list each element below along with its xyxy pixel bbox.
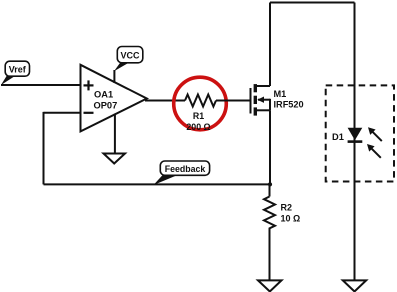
wire VEE pin down — [114, 114, 116, 154]
wire right rail down through D1 — [354, 3, 356, 281]
label callout VCC — [114, 47, 143, 72]
wire op-amp - input stub — [44, 112, 82, 114]
op-amp - input symbol — [84, 112, 94, 114]
ground under op-amp — [104, 154, 126, 164]
label callout Vref — [1, 61, 30, 85]
resistor R2 zigzag — [264, 184, 275, 280]
svg-text:R1: R1 — [193, 111, 204, 121]
svg-text:IRF520: IRF520 — [274, 100, 304, 110]
transistor M1 body lead with arrow — [258, 99, 270, 101]
svg-text:Feedback: Feedback — [165, 164, 206, 174]
label callout Feedback — [154, 161, 210, 185]
LED D1 cathode bar — [348, 140, 363, 143]
resistor R1 zigzag — [185, 95, 216, 107]
svg-text:D1: D1 — [332, 132, 344, 142]
transistor M1 gate bar — [250, 88, 252, 114]
svg-text:OP07: OP07 — [94, 101, 118, 111]
dashed enclosure box around D1 — [326, 85, 394, 181]
transistor M1 drain lead — [256, 85, 270, 87]
wire VCC pin — [113, 70, 115, 83]
LED D1 triangle — [348, 128, 363, 140]
svg-text:R2: R2 — [281, 203, 293, 213]
svg-text:M1: M1 — [274, 89, 287, 99]
svg-text:OA1: OA1 — [94, 90, 113, 100]
svg-text:VCC: VCC — [120, 51, 140, 61]
wire feedback vertical left — [43, 112, 45, 184]
ground bottom right — [343, 280, 366, 291]
wire Vref to op-amp + input — [1, 84, 81, 86]
wire op-amp output to R1 — [145, 100, 185, 102]
svg-text:Vref: Vref — [9, 65, 27, 75]
transistor M1 source lead — [256, 109, 270, 111]
ground bottom center — [258, 280, 282, 291]
LED arrow 1 — [368, 127, 382, 141]
op-amp + input symbol — [84, 80, 94, 90]
wire feedback horizontal bottom — [44, 183, 271, 185]
svg-text:200 Ω: 200 Ω — [186, 122, 210, 132]
wire drain up to top rail — [269, 3, 271, 87]
svg-text:10 Ω: 10 Ω — [281, 214, 301, 224]
LED arrow 2 — [367, 144, 381, 158]
transistor M1 channel bars — [254, 84, 257, 116]
wire R1 to MOSFET gate — [216, 100, 250, 102]
wire MOSFET source down to feedback node — [269, 110, 271, 184]
wire top rail — [270, 2, 355, 4]
op-amp OA1 triangle — [81, 65, 147, 132]
node junction dot — [268, 182, 272, 186]
red highlight circle around R1 — [174, 77, 227, 130]
